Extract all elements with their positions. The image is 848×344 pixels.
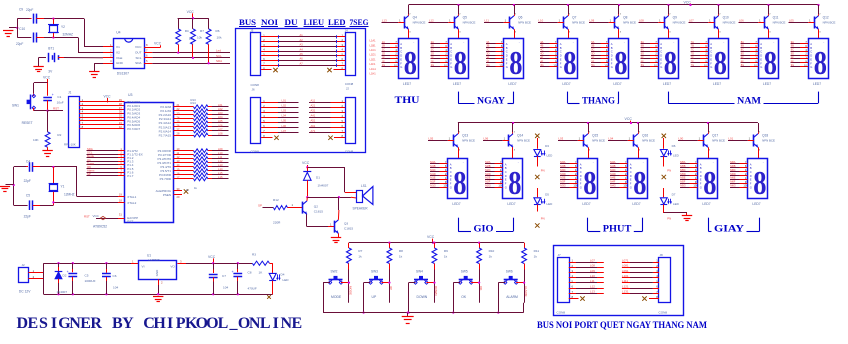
- wire bottom-left stub: [261, 102, 278, 104]
- svg-text:D: D: [710, 54, 712, 58]
- svg-text:L08: L08: [218, 131, 223, 135]
- wire emitter of Q9 to display: [668, 29, 670, 38]
- svg-text:L111: L111: [622, 279, 628, 283]
- svg-text:470UF: 470UF: [248, 287, 257, 291]
- svg-text:104: 104: [113, 286, 118, 290]
- svg-text:10K: 10K: [33, 138, 39, 142]
- svg-text:8C: 8C: [741, 48, 744, 52]
- led D7: [660, 198, 667, 204]
- svg-text:L04: L04: [609, 137, 614, 141]
- ground (LED column): [682, 215, 692, 217]
- wire: [348, 270, 350, 303]
- wire: [430, 163, 440, 165]
- svg-text:DU: DU: [285, 18, 298, 27]
- svg-text:G: G: [560, 65, 562, 69]
- svg-text:M4B: M4B: [610, 164, 616, 168]
- connector J5 CON8 (top-left): [251, 33, 261, 76]
- svg-text:P0.7/AD7: P0.7/AD7: [127, 127, 140, 131]
- wire collector node to speaker: [307, 197, 351, 199]
- wire: [485, 175, 495, 177]
- svg-text:M1B: M1B: [430, 164, 436, 168]
- connector J10 CON8 (bottom-right): [346, 98, 356, 144]
- svg-text:XTAL1: XTAL1: [127, 195, 136, 199]
- svg-text:B: B: [660, 46, 662, 50]
- transistor Q13: [453, 135, 455, 147]
- svg-text:9B: 9B: [791, 44, 794, 48]
- wire Q3 collector: [337, 210, 340, 220]
- svg-text:M1F: M1F: [430, 180, 436, 184]
- svg-text:BT1: BT1: [48, 47, 54, 51]
- svg-text:C10: C10: [19, 27, 25, 31]
- svg-text:D: D: [450, 174, 452, 178]
- wire bus row (top pair): [261, 46, 278, 48]
- transistor Q9: [664, 17, 666, 29]
- svg-text:8: 8: [583, 165, 596, 202]
- svg-text:7D: 7D: [691, 52, 694, 56]
- svg-text:C1: C1: [57, 95, 61, 99]
- svg-text:1E: 1E: [382, 55, 385, 59]
- wire: [791, 58, 801, 60]
- svg-text:CON8: CON8: [659, 311, 668, 315]
- resistor R14.1 (P3.0 pull-up): [174, 150, 194, 152]
- wire base feed net L08: [639, 22, 659, 24]
- svg-text:PN: PN: [541, 169, 545, 173]
- wire SCL net: [144, 57, 152, 59]
- svg-text:B: B: [710, 46, 712, 50]
- wire: [407, 313, 409, 317]
- group label PHUT: [587, 218, 589, 232]
- svg-text:D: D: [760, 54, 762, 58]
- svg-text:G: G: [580, 185, 582, 189]
- wire: [212, 158, 229, 160]
- wire: [485, 179, 495, 181]
- svg-text:SP: SP: [258, 204, 262, 208]
- svg-text:104: 104: [223, 286, 228, 290]
- svg-text:THANG: THANG: [582, 95, 615, 105]
- wire X2 row: [44, 37, 78, 39]
- wire emitter of Q14 to display: [512, 147, 514, 158]
- wire collector of Q7 to VCC rail: [568, 5, 570, 14]
- VCC rail (top row): [409, 4, 819, 6]
- wire: [641, 55, 651, 57]
- svg-text:8: 8: [633, 165, 646, 202]
- svg-text:D: D: [750, 174, 752, 178]
- svg-text:L05: L05: [429, 137, 434, 141]
- svg-text:3C: 3C: [486, 48, 489, 52]
- ground (RTC crystal): [9, 27, 17, 29]
- wire Q3 emitter: [338, 233, 340, 237]
- svg-text:B: B: [400, 46, 402, 50]
- wire button cell loop: [323, 282, 330, 284]
- wire to ground: [663, 212, 665, 214]
- svg-text:M3B: M3B: [560, 164, 566, 168]
- wire: [610, 183, 620, 185]
- svg-text:L14: L14: [218, 167, 223, 171]
- svg-text:D: D: [810, 54, 812, 58]
- wire base feed net L05: [789, 22, 809, 24]
- wire J7 row 2: [569, 267, 576, 269]
- capacitor C6 104: [105, 262, 107, 264]
- svg-text:7B: 7B: [691, 44, 694, 48]
- wire: [43, 263, 45, 294]
- wire P1.0 net SDA: [87, 150, 125, 152]
- svg-text:B: B: [505, 166, 507, 170]
- wire: [382, 62, 391, 64]
- svg-text:Q15: Q15: [592, 133, 598, 137]
- svg-text:LED7: LED7: [507, 202, 515, 206]
- svg-text:BUS: BUS: [239, 18, 256, 27]
- wire emitter of Q11 to display: [768, 29, 770, 38]
- resistor R14.3 (P3.2 pull-up): [174, 158, 194, 160]
- svg-text:1k: 1k: [444, 254, 448, 258]
- svg-text:SW1: SW1: [12, 104, 19, 108]
- wire: [741, 47, 751, 49]
- svg-text:A51: A51: [311, 119, 316, 123]
- svg-text:CON8: CON8: [251, 149, 260, 153]
- wire J8 row 4: [653, 277, 659, 279]
- svg-text:L10: L10: [218, 151, 223, 155]
- svg-text:ALARM: ALARM: [506, 295, 518, 299]
- wire: [680, 167, 690, 169]
- svg-text:8: 8: [453, 165, 466, 202]
- wire: [741, 62, 751, 64]
- wire J1 to U3 P0.2: [79, 109, 124, 111]
- svg-text:M2C: M2C: [485, 168, 491, 172]
- wire: [212, 178, 229, 180]
- svg-text:5C: 5C: [591, 48, 594, 52]
- resistor R14.5 (P3.4 pull-up): [174, 166, 194, 168]
- svg-text:E: E: [560, 57, 562, 61]
- svg-text:1k: 1k: [358, 254, 362, 258]
- wire J7 row 7: [569, 293, 576, 295]
- wire: [430, 179, 440, 181]
- svg-text:E: E: [810, 57, 812, 61]
- ground (Q3): [331, 237, 341, 239]
- wire bottom-right stub: [309, 107, 331, 109]
- svg-text:RST: RST: [84, 215, 90, 219]
- wire P1.5 net OK: [87, 168, 125, 170]
- wire: [610, 179, 620, 181]
- svg-text:1C: 1C: [382, 48, 385, 52]
- wire button cell loop: [498, 282, 505, 284]
- svg-text:VCC: VCC: [93, 214, 100, 218]
- svg-text:L091: L091: [622, 269, 629, 273]
- svg-text:Q17: Q17: [712, 133, 718, 137]
- svg-text:L081: L081: [622, 264, 629, 268]
- svg-text:D2: D2: [63, 273, 67, 277]
- svg-text:M2D: M2D: [485, 172, 491, 176]
- wire J1 to U3 P0.5: [79, 120, 124, 122]
- svg-text:L1B1: L1B1: [370, 43, 377, 47]
- svg-text:UP: UP: [389, 286, 393, 290]
- svg-text:1A: 1A: [382, 40, 385, 44]
- wire: [212, 122, 229, 124]
- transistor Q11: [764, 17, 766, 29]
- svg-text:L071: L071: [622, 258, 629, 262]
- wire: [641, 62, 651, 64]
- svg-text:SDA: SDA: [135, 61, 142, 65]
- wire J7 row 4: [569, 277, 576, 279]
- transistor Q7: [563, 17, 565, 29]
- wire: [560, 167, 570, 169]
- svg-text:A71: A71: [311, 129, 316, 133]
- svg-text:M6A: M6A: [730, 160, 736, 164]
- wire: [663, 138, 665, 149]
- wire: [430, 187, 440, 189]
- svg-text:-: -: [624, 40, 625, 44]
- svg-text:R3: R3: [252, 253, 256, 257]
- svg-text:2B: 2B: [431, 44, 434, 48]
- wire: [691, 51, 701, 53]
- svg-text:L16: L16: [218, 175, 223, 179]
- svg-text:CON8: CON8: [345, 149, 354, 153]
- svg-text:8: 8: [664, 45, 677, 82]
- svg-text:M1C: M1C: [430, 168, 436, 172]
- svg-text:A: A: [760, 42, 762, 46]
- wire: [40, 205, 53, 207]
- wire: [560, 175, 570, 177]
- wire: [741, 51, 751, 53]
- svg-text:M6F: M6F: [730, 180, 736, 184]
- svg-text:G: G: [710, 65, 712, 69]
- wire Q2 emitter to Q3 base: [306, 214, 308, 226]
- svg-text:NPN BCE: NPN BCE: [623, 20, 636, 24]
- svg-text:L1G1: L1G1: [370, 67, 377, 71]
- svg-text:2D: 2D: [431, 52, 434, 56]
- svg-text:B: B: [560, 46, 562, 50]
- svg-text:1N4007: 1N4007: [318, 184, 329, 188]
- led D4: [272, 263, 274, 273]
- svg-text:J7: J7: [558, 253, 562, 257]
- wire: [382, 47, 391, 49]
- svg-text:1k: 1k: [399, 254, 403, 258]
- svg-text:D1: D1: [316, 175, 320, 179]
- svg-text:5D: 5D: [591, 52, 594, 56]
- resistor R13.4 (P2.3 pull-up): [174, 118, 194, 120]
- wire bottom-right stub: [309, 132, 331, 134]
- svg-text:8: 8: [714, 45, 727, 82]
- wire J1 to U3 P0.4: [79, 117, 124, 119]
- wire EA/VPP tie: [96, 218, 118, 220]
- svg-text:U4: U4: [116, 31, 120, 35]
- svg-text:6C: 6C: [641, 48, 644, 52]
- svg-text:R6: R6: [216, 29, 220, 33]
- ground (crystal): [0, 186, 10, 188]
- wire P1.4 net Down: [87, 164, 125, 166]
- wire J8 row 7: [653, 293, 659, 295]
- wire base feed net L12: [429, 22, 449, 24]
- svg-text:VCC: VCC: [187, 10, 195, 14]
- no-connect: [662, 134, 666, 138]
- svg-text:8: 8: [404, 45, 417, 82]
- resistor R10 1k: [479, 243, 481, 248]
- svg-text:3G: 3G: [486, 63, 489, 67]
- display LED7 #5 top row: [609, 39, 629, 79]
- wire: [641, 43, 651, 45]
- svg-text:L07: L07: [282, 129, 287, 133]
- svg-text:R7: R7: [200, 29, 204, 33]
- svg-text:D: D: [400, 54, 402, 58]
- svg-text:6B: 6B: [641, 44, 644, 48]
- svg-text:E: E: [710, 57, 712, 61]
- svg-text:Q13: Q13: [462, 133, 468, 137]
- wire base feed net L11: [484, 22, 504, 24]
- svg-text:M2B: M2B: [485, 164, 491, 168]
- svg-text:R14: R14: [191, 101, 197, 105]
- svg-text:R12: R12: [273, 198, 279, 202]
- svg-text:-: -: [519, 40, 520, 44]
- svg-text:SW4: SW4: [416, 270, 423, 274]
- display LED7 #5 mid row: [698, 159, 718, 199]
- wire: [610, 171, 620, 173]
- resistor R3 1K: [252, 261, 269, 265]
- svg-text:RESET: RESET: [22, 121, 33, 125]
- capacitor C8 470UF: [237, 262, 239, 264]
- svg-text:G: G: [400, 65, 402, 69]
- wire base feed net L10: [538, 22, 558, 24]
- wire: [791, 62, 801, 64]
- wire P1.1 net SCL: [87, 154, 125, 156]
- wire: [479, 270, 481, 303]
- display LED7 #4 mid row: [628, 159, 648, 199]
- svg-text:MODE: MODE: [331, 295, 342, 299]
- svg-text:8: 8: [614, 45, 627, 82]
- svg-text:A: A: [400, 42, 402, 46]
- svg-text:8: 8: [563, 45, 576, 82]
- svg-text:R9: R9: [444, 249, 448, 253]
- svg-text:C8: C8: [248, 271, 252, 275]
- svg-text:M2G: M2G: [485, 184, 491, 188]
- wire: [591, 62, 601, 64]
- svg-text:M5A: M5A: [680, 160, 686, 164]
- svg-text:L11: L11: [590, 279, 595, 283]
- wire: [641, 47, 651, 49]
- wire: [641, 58, 651, 60]
- wire base feed net L03: [558, 140, 578, 142]
- svg-text:SW3: SW3: [371, 270, 378, 274]
- wire: [691, 62, 701, 64]
- svg-text:A4: A4: [300, 47, 304, 51]
- svg-text:L06: L06: [484, 137, 489, 141]
- svg-text:LED7: LED7: [582, 202, 590, 206]
- wire XTAL1: [76, 167, 78, 197]
- display LED7 #6 mid row: [748, 159, 768, 199]
- wire collector of Q6 to VCC rail: [514, 5, 516, 14]
- transistor Q15: [583, 135, 585, 147]
- resistor R8 1k: [389, 243, 391, 248]
- svg-text:10k: 10k: [217, 35, 222, 39]
- svg-text:LED7: LED7: [813, 82, 821, 86]
- wire: [730, 175, 740, 177]
- wire collector of Q16 to VCC rail: [638, 123, 640, 132]
- svg-text:-: -: [463, 161, 464, 165]
- svg-text:L07: L07: [590, 258, 595, 262]
- svg-text:BUS NOI PORT QUET NGAY THANG N: BUS NOI PORT QUET NGAY THANG NAM: [537, 320, 707, 331]
- svg-text:Q12: Q12: [823, 15, 829, 19]
- wire bottom-right stub: [309, 127, 331, 129]
- svg-text:VCC: VCC: [302, 161, 310, 165]
- wire bus row (top pair): [261, 51, 278, 53]
- no-connect: [535, 134, 539, 138]
- svg-text:M4D: M4D: [610, 172, 616, 176]
- led D3: [534, 150, 541, 156]
- svg-text:M5F: M5F: [680, 180, 686, 184]
- svg-text:4D: 4D: [540, 52, 543, 56]
- svg-text:6A: 6A: [641, 40, 644, 44]
- svg-text:XTAL2: XTAL2: [127, 201, 136, 205]
- wire: [212, 106, 229, 108]
- wire: [610, 187, 620, 189]
- svg-text:PN: PN: [667, 169, 671, 173]
- wire: [485, 171, 495, 173]
- group label GIO: [458, 218, 460, 232]
- switch SW2: [326, 282, 331, 284]
- svg-text:L13: L13: [218, 163, 223, 167]
- svg-text:VCC: VCC: [154, 42, 162, 46]
- svg-text:A21: A21: [311, 104, 316, 108]
- svg-text:-: -: [673, 40, 674, 44]
- svg-text:M6D: M6D: [730, 172, 736, 176]
- svg-text:L121: L121: [622, 284, 629, 288]
- wire: [591, 51, 601, 53]
- svg-text:+: +: [52, 93, 54, 97]
- svg-text:C6: C6: [113, 274, 117, 278]
- wire: [663, 156, 665, 166]
- svg-text:7E: 7E: [691, 55, 694, 59]
- no-connect pin30 ALE: [174, 190, 183, 192]
- svg-text:A: A: [630, 162, 632, 166]
- svg-text:E: E: [611, 57, 613, 61]
- wire base feed net L00: [678, 140, 698, 142]
- wire: [680, 183, 690, 185]
- transistor Q4: [404, 17, 406, 29]
- wire: [430, 167, 440, 169]
- svg-text:Q4: Q4: [413, 15, 417, 19]
- wire: [691, 66, 701, 68]
- svg-text:6F: 6F: [641, 59, 644, 63]
- wire: [791, 55, 801, 57]
- svg-text:C: C: [505, 170, 507, 174]
- wire U1 GND: [158, 279, 160, 285]
- wire collector of Q13 to VCC rail: [458, 123, 460, 132]
- wire: [691, 47, 701, 49]
- svg-text:SCL: SCL: [135, 56, 141, 60]
- svg-text:L02: L02: [218, 107, 223, 111]
- svg-text:22pF: 22pF: [24, 215, 31, 219]
- svg-text:3E: 3E: [486, 55, 489, 59]
- wire bus row (top pair): [261, 36, 278, 38]
- svg-text:8: 8: [454, 45, 467, 82]
- connector J7 CON8: [558, 258, 570, 303]
- group label NAM: [668, 92, 670, 104]
- svg-text:L09: L09: [218, 147, 223, 151]
- diode D1 1N4007: [307, 167, 309, 171]
- svg-text:L06: L06: [282, 124, 287, 128]
- wire: [791, 66, 801, 68]
- svg-text:4A: 4A: [540, 40, 543, 44]
- svg-text:J2: J2: [22, 263, 26, 267]
- svg-text:J8: J8: [660, 253, 664, 257]
- wire bottom-left stub: [261, 122, 278, 124]
- wire: [560, 179, 570, 181]
- svg-text:E: E: [700, 178, 702, 182]
- svg-text:E: E: [750, 178, 752, 182]
- svg-text:NPN BCE: NPN BCE: [673, 20, 686, 24]
- wire base feed net L01: [728, 140, 748, 142]
- wire J1 to U3 P0.6: [79, 124, 124, 126]
- wire: [537, 188, 539, 197]
- resistor R13.8 (P2.7 pull-up): [174, 135, 194, 137]
